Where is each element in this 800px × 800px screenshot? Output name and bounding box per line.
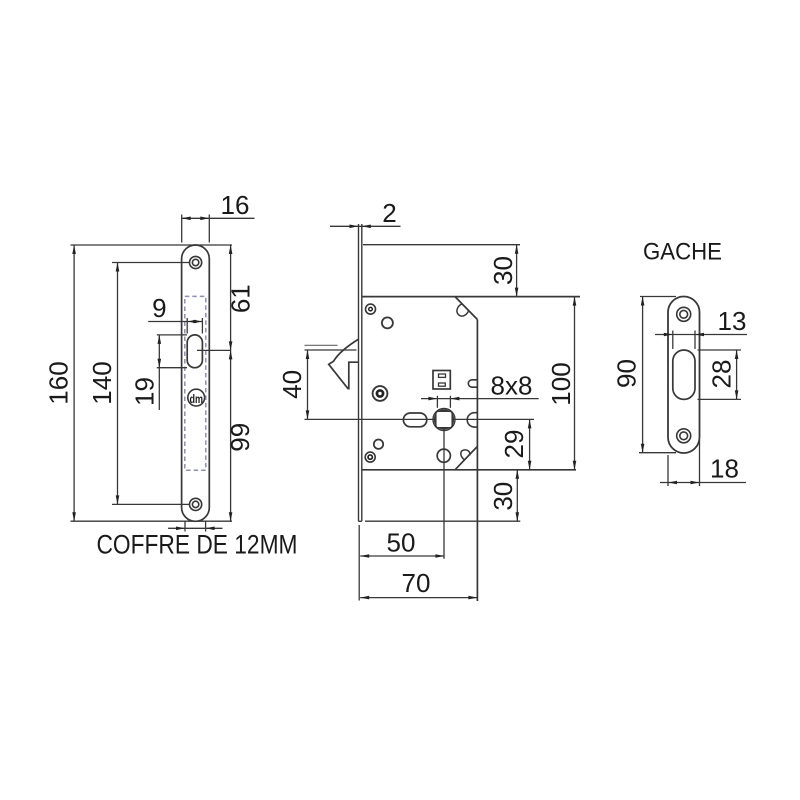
arrows 13 <box>664 333 673 337</box>
dimension line 29 <box>529 419 531 469</box>
arrows 100 <box>573 297 577 306</box>
arrows 8x8 <box>428 397 437 401</box>
arrows 160 <box>72 245 76 254</box>
arrows coffre <box>176 527 185 531</box>
strike plate outline <box>668 297 700 454</box>
top screw hole <box>190 256 202 268</box>
hole D <box>374 440 383 449</box>
svg-text:13: 13 <box>718 306 747 336</box>
svg-text:9: 9 <box>152 293 166 323</box>
svg-text:61: 61 <box>226 284 256 313</box>
arrows 2 <box>350 225 359 229</box>
svg-text:50: 50 <box>387 528 416 558</box>
dimension line 160 <box>73 245 75 521</box>
svg-text:90: 90 <box>612 359 642 388</box>
arrows 9 <box>187 320 196 324</box>
lock case dashed rectangle <box>185 296 206 470</box>
left oval slot <box>403 413 426 427</box>
arrows 50 <box>360 554 369 558</box>
svg-text:GACHE: GACHE <box>643 239 722 266</box>
extension line plate bottom middle <box>365 520 520 522</box>
faceplate outline <box>182 245 210 521</box>
dimension line 8x8 <box>421 398 539 400</box>
top chamfer notch <box>457 304 469 316</box>
extension lines 8x8 <box>436 396 438 408</box>
dimension line 50 <box>360 555 444 557</box>
arrows 19 <box>158 335 162 344</box>
dimension line coffre 12mm <box>168 527 222 529</box>
bottom chamfer notch <box>461 450 470 460</box>
dimension line 61 99 <box>230 245 232 521</box>
svg-text:19: 19 <box>130 377 160 406</box>
hole B <box>382 317 393 328</box>
extension lines 90 <box>640 296 676 298</box>
dimension line 9 <box>148 321 202 323</box>
dimension line 30 top <box>516 245 518 297</box>
body top edge and extension <box>362 296 580 298</box>
dimension line 2 <box>330 225 401 227</box>
hook extension line upper <box>305 344 338 346</box>
svg-text:8x8: 8x8 <box>491 371 533 401</box>
extension line bottom screw center <box>112 503 190 505</box>
dimension line 19 <box>158 335 160 410</box>
dimension line 13 <box>655 334 747 336</box>
arrows 18 <box>668 481 677 485</box>
hole F <box>437 449 450 462</box>
strike top screw <box>677 307 691 321</box>
extension line top screw center <box>112 262 190 264</box>
svg-text:18: 18 <box>710 454 739 484</box>
dimension line 140 <box>117 263 119 505</box>
svg-text:28: 28 <box>707 360 737 389</box>
right slot lower <box>467 413 477 427</box>
svg-text:40: 40 <box>277 370 307 399</box>
extension line 40 top <box>305 349 357 351</box>
right slot upper <box>468 380 477 387</box>
svg-text:70: 70 <box>402 568 431 598</box>
strike bottom screw <box>677 429 691 443</box>
arrows 90 <box>641 297 645 306</box>
extension line plate bottom <box>71 520 233 522</box>
arrows 30 bottom <box>516 470 520 479</box>
svg-text:160: 160 <box>44 361 74 404</box>
dimension line 28 <box>736 350 738 399</box>
svg-text:2: 2 <box>382 198 396 228</box>
svg-text:COFFRE DE 12MM: COFFRE DE 12MM <box>97 530 298 560</box>
dimension line 16 <box>182 217 255 219</box>
rivet C middle left <box>373 386 388 401</box>
arrows 140 <box>116 263 120 272</box>
body bottom edge and extension <box>362 469 576 471</box>
svg-text:29: 29 <box>499 430 529 459</box>
extension lines 13 <box>672 331 674 350</box>
hook bolt <box>329 339 359 389</box>
svg-text:16: 16 <box>221 190 250 220</box>
spindle follower housing <box>433 371 450 390</box>
arrows 99 <box>229 350 233 359</box>
dimension line 70 <box>360 597 477 599</box>
logo circle dn <box>188 389 205 406</box>
extension lines 28 <box>698 349 742 351</box>
center line vertical spindle <box>443 427 445 559</box>
arrows 16 <box>182 217 191 221</box>
extension lines 16 <box>181 215 183 243</box>
svg-text:100: 100 <box>546 362 576 405</box>
dimension line 30 bottom <box>516 470 518 521</box>
extension line plate top <box>71 244 233 246</box>
faceplate edge strip <box>358 224 360 521</box>
arrows 40 <box>306 350 310 359</box>
dimension line 18 <box>660 482 746 484</box>
bottom screw hole <box>190 498 202 510</box>
arrows 61 <box>229 245 233 254</box>
extension lines 9 <box>186 318 188 334</box>
svg-text:99: 99 <box>225 423 255 452</box>
arrows 70 <box>360 596 369 600</box>
arrows 28 <box>735 350 739 359</box>
leader line slot center <box>197 349 231 351</box>
arrows 30 top <box>515 245 519 254</box>
dimension line 100 <box>574 297 576 470</box>
latch slot <box>187 335 202 368</box>
center line horizontal <box>305 418 535 420</box>
rivet E bottom left <box>365 452 375 462</box>
svg-text:30: 30 <box>488 256 518 285</box>
svg-text:30: 30 <box>488 482 518 511</box>
dimension line 90 <box>642 297 644 453</box>
svg-text:dm: dm <box>190 394 204 406</box>
rivet A top left <box>366 304 376 314</box>
arrows 29 <box>528 419 532 428</box>
body outline right <box>455 297 477 320</box>
extension line strip top <box>363 244 520 246</box>
strike slot <box>673 350 695 399</box>
svg-text:140: 140 <box>87 361 117 404</box>
spindle hole 8x8 <box>433 409 455 431</box>
extension lines coffre 12mm <box>184 521 186 531</box>
extension lines 18 <box>667 455 669 486</box>
dimension line 40 <box>307 350 309 419</box>
extension lines 19 <box>157 334 187 336</box>
extension line 50 70 left <box>358 525 360 601</box>
